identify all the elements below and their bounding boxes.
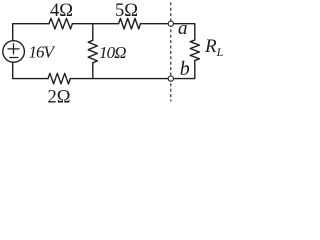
wire bottom-left segment (13, 62, 48, 78)
voltage source plus sign (8, 44, 19, 54)
voltage source V1 circle (3, 41, 25, 63)
resistor R1 4ohm zigzag (49, 18, 72, 29)
wire top-middle segment (72, 23, 118, 25)
resistor RL zigzag (190, 40, 199, 61)
terminal a open circle (168, 21, 173, 26)
svg-text:RL: RL (204, 36, 224, 59)
wire middle branch bottom (92, 63, 94, 79)
svg-text:2Ω: 2Ω (48, 88, 71, 106)
wire from terminal a to right branch corner (173, 24, 194, 40)
wire bottom segment from terminal b (70, 78, 168, 80)
svg-text:b: b (180, 58, 190, 80)
wire middle branch top (92, 24, 94, 41)
wire top-right segment to terminal a (141, 23, 169, 25)
resistor R3 10ohm zigzag (88, 40, 97, 63)
resistor R2 5ohm zigzag (119, 18, 141, 29)
wire top-left segment (13, 24, 49, 41)
svg-text:10Ω: 10Ω (99, 43, 126, 62)
terminal b open circle (168, 76, 173, 81)
resistor R4 2ohm zigzag (48, 73, 70, 84)
dashed cut line (170, 2, 172, 101)
voltage source minus sign (10, 57, 18, 59)
svg-text:16V: 16V (29, 43, 57, 62)
wire right branch bottom to terminal b (173, 61, 194, 79)
svg-text:5Ω: 5Ω (115, 1, 138, 21)
svg-text:4Ω: 4Ω (50, 1, 73, 21)
svg-text:a: a (178, 18, 188, 39)
